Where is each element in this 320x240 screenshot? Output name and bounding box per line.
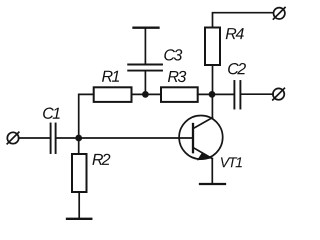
- resistor R1: [94, 87, 132, 102]
- wire C2 to output terminal: [241, 93, 273, 95]
- label R2: [92, 154, 110, 165]
- label C1: [43, 108, 60, 119]
- wire R3 to C2: [198, 93, 234, 95]
- capacitor C3: [128, 65, 162, 71]
- terminal X2 (supply, top right): [273, 8, 285, 20]
- wire input terminal to C1: [19, 137, 50, 139]
- wire R2 down to ground: [78, 192, 80, 219]
- label C3: [164, 49, 182, 60]
- wire emitter down: [211, 159, 213, 185]
- node C (R3 / R4 / C2 / collector junction): [209, 91, 216, 98]
- wire node A up to R1: [79, 94, 94, 138]
- node B (R1 / R3 / C3 junction): [142, 91, 149, 98]
- ground (R2): [67, 218, 91, 220]
- capacitor C1: [51, 124, 56, 154]
- label C2: [228, 63, 246, 74]
- transistor VT1: [179, 116, 223, 161]
- label VT1: [221, 157, 242, 167]
- wire node A down to R2: [78, 138, 80, 154]
- wire node B up to C3: [144, 71, 146, 94]
- wire node C down to collector: [211, 94, 213, 118]
- resistor R4: [205, 28, 220, 66]
- ground (emitter): [200, 183, 225, 185]
- wire R4 to supply terminal: [213, 13, 274, 28]
- resistor R2: [72, 154, 87, 192]
- node A (C1 / R1 / R2 junction): [75, 135, 82, 142]
- label R4: [226, 28, 244, 39]
- capacitor C2: [234, 81, 240, 109]
- wire C1 to transistor base: [56, 137, 192, 139]
- label R3: [168, 71, 186, 82]
- label R1: [102, 71, 119, 82]
- terminal X3 (output, right): [273, 88, 285, 100]
- terminal X1 (input, left): [7, 132, 19, 144]
- wire C3 up to ground bar: [144, 28, 146, 65]
- resistor R3: [161, 87, 198, 102]
- ground (top of C3): [134, 27, 159, 29]
- wire R1 to R3: [132, 93, 162, 95]
- wire node C up to R4: [212, 65, 214, 94]
